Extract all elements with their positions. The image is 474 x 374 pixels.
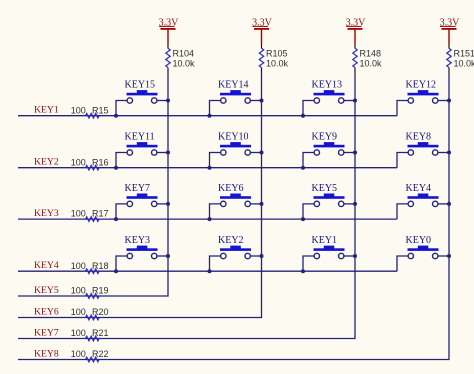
svg-text:KEY13: KEY13	[312, 79, 343, 90]
svg-text:R151: R151	[454, 48, 474, 58]
svg-text:KEY8: KEY8	[34, 348, 59, 359]
svg-text:KEY4: KEY4	[406, 183, 432, 194]
svg-text:R15: R15	[92, 105, 109, 115]
svg-text:KEY1: KEY1	[312, 235, 338, 246]
svg-text:10.0k: 10.0k	[266, 59, 289, 69]
svg-text:KEY10: KEY10	[218, 131, 249, 142]
svg-text:10.0k: 10.0k	[360, 59, 383, 69]
svg-text:R148: R148	[360, 48, 382, 58]
svg-text:100: 100	[71, 328, 86, 338]
svg-text:KEY5: KEY5	[34, 285, 59, 296]
svg-text:KEY12: KEY12	[406, 79, 437, 90]
svg-text:100: 100	[71, 157, 86, 167]
svg-text:100: 100	[71, 105, 86, 115]
svg-text:KEY15: KEY15	[125, 79, 156, 90]
svg-text:KEY1: KEY1	[34, 105, 59, 116]
svg-text:R19: R19	[92, 286, 109, 296]
svg-text:R105: R105	[266, 48, 288, 58]
svg-text:KEY4: KEY4	[34, 260, 59, 271]
svg-text:KEY7: KEY7	[34, 327, 59, 338]
svg-text:KEY6: KEY6	[218, 183, 244, 194]
svg-text:100: 100	[71, 209, 86, 219]
svg-text:10.0k: 10.0k	[173, 59, 196, 69]
svg-text:100: 100	[71, 286, 86, 296]
svg-text:KEY0: KEY0	[406, 235, 432, 246]
svg-text:KEY5: KEY5	[312, 183, 338, 194]
svg-text:KEY14: KEY14	[218, 79, 249, 90]
svg-text:R17: R17	[92, 209, 109, 219]
svg-text:KEY9: KEY9	[312, 131, 338, 142]
svg-text:KEY3: KEY3	[34, 208, 59, 219]
svg-text:KEY2: KEY2	[218, 235, 244, 246]
svg-text:100: 100	[71, 307, 86, 317]
svg-text:100: 100	[71, 349, 86, 359]
svg-text:KEY7: KEY7	[125, 183, 151, 194]
svg-text:KEY6: KEY6	[34, 306, 59, 317]
svg-text:R104: R104	[173, 48, 195, 58]
svg-text:KEY11: KEY11	[125, 131, 155, 142]
svg-text:R18: R18	[92, 261, 109, 271]
svg-text:KEY2: KEY2	[34, 157, 59, 168]
svg-text:100: 100	[71, 261, 86, 271]
svg-text:KEY8: KEY8	[406, 131, 432, 142]
svg-text:10.0k: 10.0k	[454, 59, 474, 69]
svg-text:R22: R22	[92, 349, 109, 359]
svg-text:R21: R21	[92, 328, 109, 338]
svg-text:R20: R20	[92, 307, 109, 317]
svg-text:R16: R16	[92, 157, 109, 167]
svg-text:KEY3: KEY3	[125, 235, 151, 246]
